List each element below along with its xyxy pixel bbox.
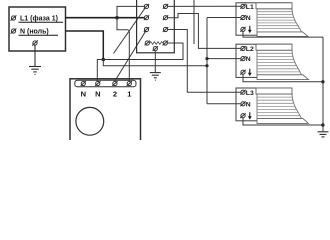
svg-text:N: N — [95, 90, 100, 99]
wire stub top right — [193, 0, 195, 44]
button box — [70, 79, 141, 142]
svg-text:1: 1 — [127, 90, 131, 99]
relay PE terminal — [153, 46, 158, 51]
relay box — [137, 0, 175, 53]
terminal down-arrow — [240, 113, 245, 118]
wire N to lamp3 — [207, 103, 241, 105]
node PE joints — [321, 80, 324, 83]
terminal down-arrow — [240, 70, 245, 75]
button knob — [76, 107, 104, 135]
svg-text:2: 2 — [113, 90, 117, 99]
wire PE lamp3 — [243, 118, 323, 125]
wire PE bus right — [322, 37, 324, 132]
svg-text:L2: L2 — [246, 46, 254, 53]
terminal PE input — [32, 40, 38, 45]
blind icon 1 — [256, 3, 308, 37]
wire phase to button terminal 1 — [117, 18, 129, 81]
node N junction — [102, 58, 106, 62]
terminal N input — [11, 28, 17, 33]
power input box — [9, 7, 66, 51]
wire phase to relay row1 — [117, 6, 147, 17]
wire phase L1 — [66, 17, 147, 19]
lamp box L1 — [236, 3, 308, 37]
terminal N — [240, 101, 245, 106]
svg-text:N: N — [246, 56, 251, 63]
wire relay out2 to lamp L2 — [168, 14, 241, 49]
terminal N — [240, 15, 245, 20]
wire relay out3 to lamp L3 — [168, 30, 241, 93]
ground right — [318, 132, 329, 137]
wire N to lamp2 — [207, 58, 241, 60]
node N bus joints — [205, 57, 208, 60]
wire PE lamp1 — [243, 31, 323, 37]
svg-text:N: N — [246, 101, 251, 108]
relay contact terminals left — [144, 4, 149, 32]
relay contact terminals right — [163, 4, 168, 32]
lamp box L3 — [236, 88, 308, 123]
blind icon 2 — [256, 44, 308, 79]
blind icon 3 — [256, 88, 308, 123]
wire N down and right — [103, 60, 207, 66]
wire N to lamp1 — [207, 17, 241, 19]
wire PE lamp2 — [243, 74, 323, 82]
terminal L2 — [240, 46, 245, 51]
wire N from box — [66, 31, 104, 60]
svg-text:N: N — [246, 15, 251, 22]
ground power — [29, 67, 41, 75]
wire PE down — [34, 45, 36, 66]
wire relay to ground — [154, 51, 156, 73]
svg-text:L1 (фаза 1): L1 (фаза 1) — [20, 16, 58, 23]
terminal down-arrow — [240, 27, 245, 32]
wire coil from button N — [97, 43, 183, 81]
wire N bus — [206, 18, 208, 104]
wire diagonal to relay row1 — [114, 6, 147, 54]
lamp box L2 — [236, 44, 308, 79]
svg-text:N (ноль): N (ноль) — [20, 29, 49, 36]
ground relay — [150, 73, 161, 81]
terminal L3 — [240, 90, 245, 95]
terminal L1 input — [11, 15, 17, 20]
relay coil — [149, 42, 163, 45]
terminal L1 — [240, 4, 245, 9]
wire diagonal button 2 to relay — [115, 30, 147, 81]
node phase junction — [115, 16, 119, 20]
button terminal strip — [75, 80, 136, 86]
relay coil terminals — [145, 41, 168, 46]
svg-text:N: N — [81, 90, 86, 99]
wire relay out1 to lamp L1 — [168, 5, 241, 7]
terminal N — [240, 56, 245, 61]
button terminals N N 2 1 — [81, 81, 132, 86]
svg-text:L3: L3 — [246, 90, 254, 97]
svg-text:L1: L1 — [246, 4, 254, 11]
